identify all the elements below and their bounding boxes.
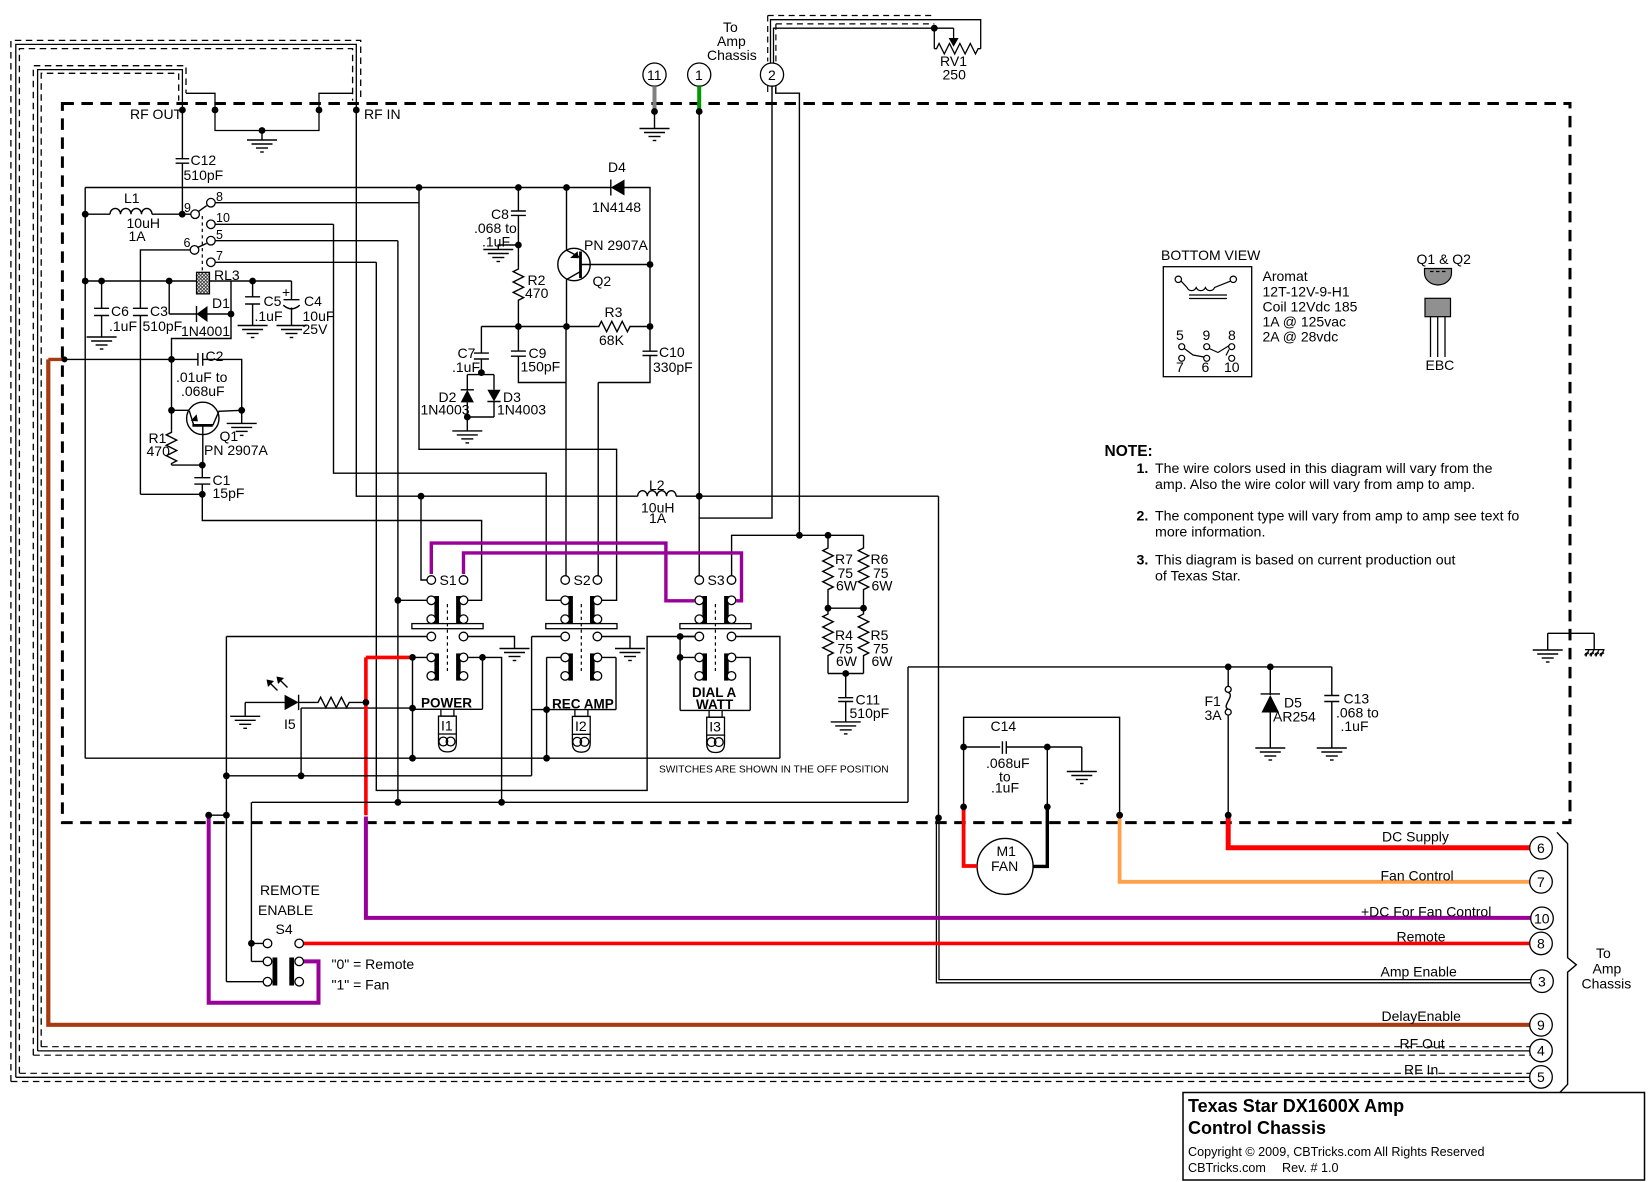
wire C8 ground stub <box>498 245 518 250</box>
svg-text:To: To <box>1596 945 1611 961</box>
svg-text:8: 8 <box>1228 327 1236 343</box>
svg-text:5: 5 <box>1537 1069 1545 1085</box>
svg-text:POWER: POWER <box>421 696 472 711</box>
transistor Q2 collector diagonal <box>566 272 581 576</box>
wire circle1 net vertical to S3 left pin <box>698 112 700 576</box>
wire R4/R5 bottom tie <box>828 673 864 675</box>
capacitor C11 <box>838 674 853 722</box>
svg-text:9: 9 <box>1537 1017 1545 1033</box>
svg-text:C12: C12 <box>191 152 217 168</box>
potentiometer RV1 wiper arrow <box>949 38 959 47</box>
diode D5 triangle <box>1262 695 1280 713</box>
svg-text:250: 250 <box>943 67 967 83</box>
svg-text:1A: 1A <box>129 228 147 244</box>
switch S1 POWER <box>301 604 514 802</box>
node dots Q2 area <box>416 184 423 191</box>
svg-text:SWITCHES ARE SHOWN IN THE OFF: SWITCHES ARE SHOWN IN THE OFF POSITION <box>659 765 889 776</box>
svg-text:"1" = Fan: "1" = Fan <box>332 977 390 993</box>
fuse F1 s-curve <box>1226 692 1230 709</box>
wire R7/R6 mid tie <box>828 607 864 609</box>
transistor Q1 emitter arrow <box>191 414 198 421</box>
svg-text:I2: I2 <box>575 718 587 734</box>
pin relay pin 8 <box>207 198 216 207</box>
transistor Q2 emitter arrow <box>570 251 579 258</box>
wire RF In coax center conductor <box>16 44 357 1077</box>
wire C2 node to R1/Q1 base <box>171 359 173 430</box>
node dots on +V rail <box>82 278 89 285</box>
svg-text:NOTE:: NOTE: <box>1105 443 1153 460</box>
capacitor C4 electrolytic <box>283 281 299 326</box>
svg-text:8: 8 <box>216 190 223 204</box>
wire coax center to RV1 right end <box>771 20 981 64</box>
wire purple S1-right-pin to S3 row1 right <box>464 553 742 601</box>
svg-text:PN 2907A: PN 2907A <box>204 442 268 458</box>
wire RF In coax bottom run <box>19 1072 1530 1074</box>
svg-text:68K: 68K <box>599 332 625 348</box>
wire C1 net to S1 row1 right <box>202 494 481 600</box>
ground left of border <box>1533 650 1563 662</box>
node S1 row1 left / pin5 dot <box>395 597 402 604</box>
connector circle 2 <box>760 63 783 86</box>
resistor R2 <box>513 267 523 326</box>
wire green stub from circle 1 <box>697 86 701 109</box>
wire purple +DC for fan control <box>366 817 1531 918</box>
svg-text:510pF: 510pF <box>143 318 183 334</box>
svg-text:+: + <box>282 284 290 300</box>
LED I5 row <box>245 679 366 717</box>
wire S4 row1 feed <box>226 802 263 981</box>
capacitor C14 row <box>964 741 1082 771</box>
wire +V rail y=281 <box>85 280 291 282</box>
resistor R6 <box>858 535 868 608</box>
wire RF In coax shield outer dashed border <box>11 40 361 1081</box>
capacitor C2 row <box>64 353 242 410</box>
svg-text:Q2: Q2 <box>593 273 612 289</box>
wire D2/D3 rejoin <box>467 417 494 431</box>
pin relay pin 6 <box>190 246 199 255</box>
svg-text:510pF: 510pF <box>850 705 890 721</box>
svg-text:S1: S1 <box>440 572 457 588</box>
transistor Q2 circle <box>558 248 590 280</box>
svg-text:10: 10 <box>216 211 230 225</box>
svg-text:C6: C6 <box>111 303 129 319</box>
svg-text:C10: C10 <box>659 344 685 360</box>
svg-text:7: 7 <box>216 249 223 263</box>
wire circle2 left wire jog to S3 left net <box>699 87 772 519</box>
svg-text:Chassis: Chassis <box>707 47 757 63</box>
node dots switch area <box>409 654 416 661</box>
wire rail y=326.5 <box>481 326 597 328</box>
wire pin5 net long vertical <box>397 241 399 803</box>
title block <box>1183 1093 1645 1181</box>
svg-text:more information.: more information. <box>1155 525 1265 541</box>
ground below C4 <box>277 326 307 338</box>
ground right of S2 <box>615 649 645 661</box>
wire RF In coax shield inner dashed border <box>19 49 352 1074</box>
wire RF In to L2 <box>356 110 637 496</box>
svg-text:.1uF: .1uF <box>452 359 480 375</box>
capacitor C9 <box>511 327 566 383</box>
node emitter/C1 dot <box>199 462 206 469</box>
svg-text:6W: 6W <box>872 578 894 594</box>
diode D1 triangle <box>197 306 208 322</box>
svg-text:1N4003: 1N4003 <box>421 402 470 418</box>
pin relay pin 5 <box>207 236 216 245</box>
svg-text:C3: C3 <box>150 303 168 319</box>
node Q1 right dot <box>238 407 245 414</box>
wire tie purple to black net <box>209 814 227 816</box>
svg-text:FAN: FAN <box>991 858 1018 874</box>
resistor R5 <box>858 608 868 673</box>
svg-text:C2: C2 <box>206 348 224 364</box>
transistor Q1 collector lead <box>213 410 242 425</box>
node L2/circle1 junction dot <box>696 493 703 500</box>
svg-text:3: 3 <box>1538 974 1546 990</box>
svg-text:.1uF: .1uF <box>109 318 137 334</box>
svg-text:I5: I5 <box>284 716 296 732</box>
wire pin 8 lead <box>215 202 419 204</box>
relay coil symbol <box>1175 276 1181 282</box>
svg-text:6W: 6W <box>836 578 858 594</box>
diode D4 cathode bar <box>610 180 612 196</box>
ground left of I5 <box>230 716 260 728</box>
wire amp enable riser from L2 line <box>938 496 940 818</box>
svg-text:11: 11 <box>647 67 662 83</box>
svg-text:Q1 & Q2: Q1 & Q2 <box>1417 251 1472 267</box>
svg-text:470: 470 <box>147 443 171 459</box>
wire rail y=775.8 S4 to S2 riser <box>226 775 531 777</box>
transistor Q2 emitter lead from rail <box>566 188 568 251</box>
wire pin8 net riser and rail to S2 row1 right <box>419 188 617 601</box>
pin relay pin 9 <box>191 210 200 219</box>
resistor R4 <box>823 608 833 673</box>
switch S4 contact bars <box>273 958 278 986</box>
svg-text:6: 6 <box>1537 840 1545 856</box>
svg-text:8: 8 <box>1537 936 1545 952</box>
capacitor C13 <box>1324 667 1339 748</box>
resistor R1 <box>166 431 176 466</box>
wire brown to C2 row stub <box>48 358 64 361</box>
wire D4 to corner and down to Q2 base / R3 <box>625 188 651 328</box>
transistor Q2 base lead <box>581 264 651 266</box>
fuse F1 terminals <box>1225 686 1231 692</box>
wire C10 bottom to S2 right pin <box>597 383 599 576</box>
node RF IN chassis entry dot <box>353 107 360 114</box>
wire C14 right to M1 black <box>1046 747 1048 807</box>
capacitor C7 <box>474 327 489 373</box>
svg-text:Aromat: Aromat <box>1263 268 1308 284</box>
wire right side ground tie <box>1548 633 1595 650</box>
wire pin 7 lead <box>215 261 376 263</box>
wire main rail y=187.5 from x=85 vertical to D4 <box>85 187 611 189</box>
fuse F1 leads <box>1227 667 1229 815</box>
svg-text:5: 5 <box>1176 327 1184 343</box>
wire purple S4 loop <box>209 817 319 1003</box>
svg-text:+DC For Fan Control: +DC For Fan Control <box>1361 904 1491 920</box>
svg-text:Copyright © 2009, CBTricks.com: Copyright © 2009, CBTricks.com All Right… <box>1188 1145 1484 1159</box>
inductor L2 <box>638 491 676 497</box>
svg-text:1A @ 125vac: 1A @ 125vac <box>1263 314 1347 330</box>
svg-text:ENABLE: ENABLE <box>258 902 313 918</box>
G_RELAYAREA <box>85 180 657 759</box>
svg-text:.068uF: .068uF <box>181 383 225 399</box>
transistor Q1 base bar horizontal <box>192 424 212 427</box>
ground below D5 <box>1255 748 1285 760</box>
svg-text:I1: I1 <box>441 718 453 734</box>
svg-text:Control Chassis: Control Chassis <box>1188 1118 1326 1138</box>
svg-text:Texas Star DX1600X Amp: Texas Star DX1600X Amp <box>1188 1096 1404 1116</box>
svg-text:10: 10 <box>1534 911 1550 927</box>
brace to amp chassis <box>1557 832 1576 1095</box>
wire coax second conductor to RV1 left/wiper <box>774 28 954 63</box>
svg-text:EBC: EBC <box>1426 357 1455 373</box>
wire RF In shield tie to chassis <box>319 93 353 110</box>
wire red remote <box>304 942 1530 946</box>
ground below C11 <box>831 722 861 734</box>
wire lamp return rail y=758.2 <box>85 757 780 759</box>
wire relay contact 9-8 arm <box>199 206 207 212</box>
svg-text:amp. Also the wire color will: amp. Also the wire color will vary from … <box>1155 477 1475 493</box>
ground below Q1 right node <box>227 423 257 435</box>
svg-text:RF OUT: RF OUT <box>130 106 183 122</box>
node Q1 base dot <box>168 407 175 414</box>
ground below C8 stub <box>483 250 513 262</box>
svg-text:1A: 1A <box>649 510 667 526</box>
svg-text:6W: 6W <box>872 653 894 669</box>
ground below C14 right <box>1067 772 1097 784</box>
ground below circle 11 <box>640 129 670 141</box>
svg-text:"0" = Remote: "0" = Remote <box>332 956 415 972</box>
svg-text:L2: L2 <box>649 477 665 493</box>
wire gray stub from circle 11 <box>653 86 657 109</box>
svg-text:5: 5 <box>216 228 223 242</box>
svg-text:Coil 12Vdc 185: Coil 12Vdc 185 <box>1263 299 1358 315</box>
ground shield ground symbol <box>247 131 277 153</box>
diode D2 leads <box>461 390 474 417</box>
capacitor C5 <box>245 281 260 326</box>
connector circle 11 <box>643 63 666 86</box>
wire pin7 net to S3 pole2 <box>376 262 695 790</box>
svg-text:.1uF: .1uF <box>1341 718 1369 734</box>
capacitor C3 <box>133 308 148 494</box>
LED I5 triangle <box>285 695 299 710</box>
svg-text:L1: L1 <box>124 190 140 206</box>
svg-text:DC Supply: DC Supply <box>1382 829 1449 845</box>
wire node 9 to L1/C12 <box>182 213 190 215</box>
svg-text:C5: C5 <box>264 293 282 309</box>
relay contact arms <box>1184 349 1204 358</box>
ground below C6 <box>87 337 117 349</box>
pin relay pin 10 <box>207 220 216 229</box>
wire RF Out coax shield outer dashed border <box>33 66 186 1055</box>
svg-text:S2: S2 <box>574 572 591 588</box>
transistor Q1 emitter lead <box>172 410 194 424</box>
switch S3 DIAL A WATT <box>680 604 780 758</box>
wire shield ground U below chassis entry <box>215 110 319 131</box>
wire pin 5 lead <box>215 240 398 242</box>
svg-text:C14: C14 <box>991 718 1017 734</box>
svg-text:1: 1 <box>695 67 703 83</box>
diode D1 cathode lead <box>172 281 232 359</box>
ground right of S1 <box>500 649 530 661</box>
svg-text:3A: 3A <box>1205 707 1223 723</box>
svg-text:330pF: 330pF <box>653 359 693 375</box>
wire Q1 right node ground stem <box>241 410 243 423</box>
wire pin5 to S1 row1 left <box>398 599 427 601</box>
transistor Q2 bar <box>579 252 582 279</box>
svg-text:6W: 6W <box>836 653 858 669</box>
wire RF Out coax shield inner dashed border <box>41 73 179 1046</box>
diode D3 leads <box>487 402 500 418</box>
wire relay contact 6-5 arm <box>198 243 206 247</box>
svg-text:25V: 25V <box>303 321 329 337</box>
svg-text:.1uF: .1uF <box>255 308 283 324</box>
svg-text:Remote: Remote <box>1397 929 1446 945</box>
svg-text:Amp Enable: Amp Enable <box>1381 964 1457 980</box>
svg-text:Chassis: Chassis <box>1582 976 1632 992</box>
svg-text:Amp: Amp <box>1593 961 1622 977</box>
node L2/S1 riser dot <box>418 493 425 500</box>
svg-text:Rev. # 1.0: Rev. # 1.0 <box>1282 1161 1338 1175</box>
wire x=85 long vertical (rail to lamp return rail) <box>84 188 86 759</box>
capacitor C12 <box>176 110 190 214</box>
svg-text:D1: D1 <box>212 295 230 311</box>
inductor L1 <box>85 213 110 215</box>
svg-text:4: 4 <box>1537 1043 1545 1059</box>
LED I5 emission arrowheads <box>267 680 275 688</box>
wire relay gang dashed link <box>201 216 203 272</box>
switch S4 pins <box>263 939 303 986</box>
svg-text:I3: I3 <box>709 719 721 735</box>
wire pin 10 lead <box>215 223 333 225</box>
svg-text:.1uF: .1uF <box>991 780 1019 796</box>
svg-text:C4: C4 <box>304 293 322 309</box>
svg-text:BOTTOM VIEW: BOTTOM VIEW <box>1161 247 1261 263</box>
wire orange fan control <box>1120 817 1531 882</box>
node C2 left dot <box>168 356 175 363</box>
transistor Q1 base stem down <box>202 425 204 465</box>
svg-text:RF IN: RF IN <box>364 106 401 122</box>
diode D2 triangle <box>461 390 474 403</box>
svg-text:Fan Control: Fan Control <box>1381 868 1454 884</box>
svg-text:470: 470 <box>525 285 549 301</box>
relay contact circles <box>1179 344 1235 362</box>
svg-text:S4: S4 <box>276 921 293 937</box>
wire S4 row1 rail y=802.3 riser to DC rail <box>252 667 908 802</box>
svg-text:2.: 2. <box>1137 509 1149 525</box>
svg-text:1N4148: 1N4148 <box>592 199 641 215</box>
chassis ground right of border <box>1585 650 1605 657</box>
wire purple S1-left-pin to S3 row1 left <box>431 543 694 601</box>
capacitor C8 <box>511 188 526 268</box>
svg-text:AR254: AR254 <box>1273 709 1316 725</box>
switch S2 REC AMP <box>532 604 630 776</box>
wire R1 bottom to emitter node <box>172 464 203 466</box>
wire D2/D3 split <box>467 373 494 390</box>
diode D3 triangle <box>487 390 500 402</box>
capacitor C10 <box>598 328 657 383</box>
connector circle 1 <box>688 63 711 86</box>
pin relay pin 7 <box>207 258 216 267</box>
ground below C5 <box>238 326 268 338</box>
node RF OUT chassis entry dot <box>179 107 186 114</box>
wire red DC supply <box>1228 817 1530 848</box>
capacitor C6 <box>94 281 109 337</box>
ground below D2/D3 <box>452 431 482 443</box>
svg-text:S3: S3 <box>708 572 725 588</box>
wire RF Out shield tie to chassis <box>186 93 215 110</box>
wire pin10 net to S2 row1 left <box>334 224 562 600</box>
svg-text:PN 2907A: PN 2907A <box>584 237 648 253</box>
wire C14 left leg down to M1 red <box>963 747 965 807</box>
svg-text:150pF: 150pF <box>521 359 561 375</box>
lamp I3 <box>707 710 725 752</box>
svg-text:of Texas Star.: of Texas Star. <box>1155 569 1241 585</box>
wire coax to RV1: shield dashes <box>768 16 935 95</box>
svg-text:CBTricks.com: CBTricks.com <box>1188 1161 1266 1175</box>
resistor R3 <box>597 321 650 331</box>
potentiometer RV1 <box>933 28 935 49</box>
wire chassis boundary dashed box <box>62 104 1570 823</box>
wire C14 loop <box>964 717 1120 815</box>
node circle2right/S3 dot <box>796 532 803 539</box>
wire red M1 feed <box>964 808 978 866</box>
svg-text:.1uF: .1uF <box>482 234 510 250</box>
wire S3 top right pin to R7 rail <box>732 535 864 575</box>
svg-text:15pF: 15pF <box>213 485 245 501</box>
svg-text:9: 9 <box>1203 327 1211 343</box>
svg-text:REMOTE: REMOTE <box>260 882 320 898</box>
wire L2 right to amp-enable corner <box>676 495 938 497</box>
svg-text:M1: M1 <box>997 843 1017 859</box>
wire RF Out coax bottom run <box>11 1047 1530 1082</box>
wire DC rail to F1/D5/C13 <box>908 666 1332 668</box>
transistor Q2 emitter diagonal <box>567 250 581 257</box>
ground below C13 <box>1317 748 1347 760</box>
wire pin 6 lead <box>140 250 190 308</box>
svg-text:510pF: 510pF <box>184 167 224 183</box>
svg-text:D4: D4 <box>608 159 626 175</box>
lamp I1 <box>439 709 457 752</box>
wire red vertical to chassis edge <box>364 657 368 815</box>
wire amp enable double line <box>936 818 1530 983</box>
connector circle 6 <box>1530 837 1554 1089</box>
node C1 bottom dot <box>199 491 206 498</box>
svg-text:DelayEnable: DelayEnable <box>1382 1008 1462 1024</box>
diode D4 triangle <box>611 180 625 196</box>
diode D1 anode lead <box>169 281 196 322</box>
wire S3 pole2 vertical to S4 <box>226 637 427 982</box>
svg-text:7: 7 <box>1537 874 1545 890</box>
wire red to S1 row4 left <box>366 656 411 660</box>
relay bottom view box <box>1163 267 1251 377</box>
transistor Q1 circle <box>187 402 219 434</box>
wire C3 bottom to C1 bottom <box>140 493 202 495</box>
wire RF Out coax center conductor <box>38 70 183 1051</box>
svg-text:The component type will vary f: The component type will vary from amp to… <box>1155 509 1519 525</box>
lamp I2 <box>572 710 590 753</box>
svg-text:R3: R3 <box>605 304 623 320</box>
svg-text:6: 6 <box>184 236 191 250</box>
svg-text:RF In: RF In <box>1404 1062 1438 1078</box>
svg-text:3.: 3. <box>1137 553 1149 569</box>
svg-text:2A @ 28vdc: 2A @ 28vdc <box>1263 329 1339 345</box>
svg-text:1N4001: 1N4001 <box>181 323 230 339</box>
svg-text:1N4003: 1N4003 <box>497 402 546 418</box>
svg-text:2: 2 <box>768 67 776 83</box>
svg-text:WATT: WATT <box>696 697 734 712</box>
diode D5 leads <box>1261 667 1280 748</box>
